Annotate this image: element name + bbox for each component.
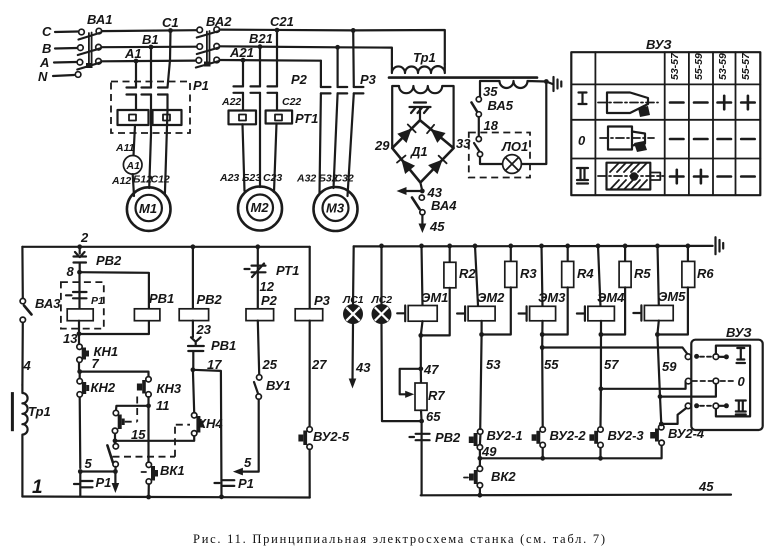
wire A23 heater to motor M2	[243, 124, 245, 191]
switch BA1 pole B	[78, 45, 84, 51]
svg-text:КН2: КН2	[91, 380, 116, 395]
node B21 junction at M3 drop	[335, 45, 340, 50]
svg-text:С32: С32	[335, 173, 354, 185]
wire B1 run BA1 to BA2	[101, 46, 196, 49]
arrow reference 43 down	[349, 379, 357, 389]
contact PT1 thermal	[245, 264, 266, 278]
wire bridge bottom to node 43	[420, 183, 422, 192]
svg-text:ВА2: ВА2	[206, 14, 232, 29]
svg-text:ЭМ1: ЭМ1	[421, 290, 448, 305]
node junction EM3 top	[539, 244, 544, 249]
node 5 junction left	[78, 469, 83, 474]
button KH2	[79, 372, 82, 468]
wire EM2 to R3 junction and node 53	[480, 321, 481, 429]
svg-text:С12: С12	[151, 174, 170, 186]
diode upper-right	[431, 129, 446, 143]
svg-text:Тр1: Тр1	[28, 404, 51, 419]
heater element C phase in P1 box	[153, 110, 182, 125]
heater C22 element	[266, 111, 293, 124]
svg-text:РВ2: РВ2	[435, 430, 461, 445]
wire node 5 horizontal	[80, 470, 115, 472]
transformer Tp1 secondary 2 winding	[480, 81, 553, 96]
contact P1 phase C ticks	[158, 88, 168, 95]
heater A22 element	[229, 111, 257, 125]
wire C1 run BA1 to BA2	[102, 29, 197, 32]
wire bus to lamp LS1	[352, 246, 355, 304]
svg-text:Р1: Р1	[193, 78, 209, 93]
relay coil PB2 drop	[192, 247, 194, 309]
contact P3 phase C ticks	[354, 87, 364, 93]
table row II position symbol	[577, 168, 588, 184]
svg-text:Тр1: Тр1	[413, 50, 436, 65]
contact P1 phase B ticks	[142, 88, 152, 95]
node junction EM4 top	[596, 244, 601, 249]
wire A21 run BA2 to M3 drop corner	[220, 59, 321, 62]
svg-text:ВА5: ВА5	[488, 98, 514, 113]
svg-text:45: 45	[429, 219, 445, 234]
svg-text:53: 53	[486, 357, 501, 372]
contact P1 self-holding	[66, 272, 87, 309]
transformer Tp1 control winding	[22, 385, 27, 497]
svg-text:35: 35	[483, 84, 498, 99]
svg-text:4: 4	[23, 358, 32, 373]
svg-text:Р3: Р3	[360, 72, 377, 87]
wire switch 15 lower to node 5	[114, 467, 116, 472]
wire 57 to VU3 selector row 0	[601, 381, 686, 389]
svg-text:23: 23	[196, 322, 212, 337]
node junction R2 top	[447, 244, 452, 249]
wire EM1 to R2 junction	[421, 321, 423, 335]
svg-text:ВУЗ: ВУЗ	[646, 37, 672, 52]
lamp LO1	[503, 155, 522, 174]
node junction EM1 top	[419, 244, 424, 249]
wire EM4 down to VU2-3	[599, 321, 602, 427]
svg-text:R6: R6	[697, 266, 714, 281]
svg-text:55-59: 55-59	[693, 53, 705, 80]
table row I sketch quill	[607, 93, 648, 114]
svg-text:Р1: Р1	[238, 476, 254, 491]
button VU2-3	[599, 448, 601, 459]
selector VU3 row II contacts	[685, 403, 691, 409]
wire C21 run BA2 to transformer corner	[220, 30, 445, 64]
svg-text:8: 8	[67, 264, 75, 279]
wire bus to EM1 coil	[422, 246, 423, 306]
wire BK1 to bus	[148, 484, 150, 497]
svg-text:А11: А11	[115, 142, 135, 154]
contact P1 bottom right	[215, 480, 235, 486]
node junction R4 top	[565, 244, 570, 249]
table row 0 values	[670, 138, 755, 141]
node junction 57	[599, 386, 604, 391]
wire switch 15 to junction	[114, 434, 116, 444]
diode upper-left	[397, 128, 411, 143]
wire A1 run BA1 to BA2	[101, 59, 195, 62]
svg-text:РТ1: РТ1	[295, 111, 318, 126]
electromagnet EM4	[588, 306, 615, 321]
button VU2-1	[479, 434, 482, 458]
contact P3 phase A ticks	[321, 87, 331, 93]
wire lamp LO1 to secondary return	[521, 82, 546, 165]
node junction PB2 top	[191, 244, 196, 249]
svg-text:РВ1: РВ1	[211, 338, 236, 353]
node junction EM5-R6	[655, 332, 660, 337]
table row II sketch hatched block	[598, 163, 664, 190]
wire A11 heater to ammeter	[134, 125, 136, 156]
node junction BK1 on bus	[146, 495, 151, 500]
lamp LS2	[372, 304, 392, 324]
node junction 55	[540, 345, 545, 350]
svg-text:1: 1	[32, 477, 43, 498]
svg-text:А23: А23	[219, 172, 239, 184]
wire EM5 down to VU2-4	[657, 321, 661, 425]
wire A1 drop to contact	[135, 61, 137, 110]
bus bottom left	[22, 497, 309, 498]
switch BA5	[476, 97, 481, 102]
switch 15 lower	[113, 444, 118, 449]
svg-text:57: 57	[604, 357, 619, 372]
svg-text:2: 2	[80, 230, 89, 245]
node A21 junction at M2 tap	[241, 58, 246, 63]
node A1 junction	[134, 59, 139, 64]
svg-text:65: 65	[426, 409, 441, 424]
svg-text:ВУ2-4: ВУ2-4	[668, 426, 705, 441]
node 2 junction	[77, 244, 82, 249]
node 8 junction	[77, 270, 82, 275]
relay coil P2	[246, 309, 274, 321]
svg-text:C: C	[42, 24, 52, 39]
svg-text:ЛО1: ЛО1	[501, 139, 528, 154]
wire EM3 down through junctions to VU2-2	[541, 321, 544, 427]
svg-text:С23: С23	[263, 172, 282, 184]
svg-text:C21: C21	[270, 14, 294, 29]
wire A22 drop to P2 contact	[242, 60, 244, 110]
switch BA2 pole A	[196, 58, 202, 64]
svg-text:R7: R7	[428, 388, 445, 403]
node junction 49 VU2-2	[540, 456, 545, 461]
node 11 junction	[146, 403, 151, 408]
svg-text:49: 49	[481, 444, 497, 459]
transformer Tp1 primary winding	[392, 64, 445, 73]
svg-text:РВ2: РВ2	[197, 292, 223, 307]
svg-text:А22: А22	[221, 96, 241, 108]
node junction EM3-R4	[540, 332, 545, 337]
wire junction to KH4 bottom	[115, 436, 194, 441]
svg-text:ЭМ2: ЭМ2	[477, 290, 505, 305]
node 13 junction	[77, 331, 82, 336]
wire A32 drop to P3 contact	[320, 61, 321, 193]
relay coil PB2	[179, 309, 208, 321]
button KH3	[146, 377, 151, 382]
transformer Tp1 core	[389, 76, 537, 79]
node junction row II on 59 wire	[659, 422, 664, 427]
node 5 junction right	[113, 469, 118, 474]
svg-text:ВК1: ВК1	[160, 463, 185, 478]
switch BA2 pole B	[197, 44, 203, 50]
svg-text:А1: А1	[124, 46, 142, 61]
svg-text:Р2: Р2	[261, 293, 278, 308]
svg-text:РТ1: РТ1	[276, 263, 299, 278]
node junction PT1 top	[255, 244, 260, 249]
electromagnet EM2	[468, 306, 495, 321]
wire junction to node 47	[420, 335, 422, 368]
svg-text:53-57: 53-57	[669, 52, 681, 80]
selector VU3 position II label	[736, 401, 746, 415]
switch BA1 N terminal	[75, 72, 81, 78]
node B1 junction	[149, 45, 154, 50]
node 17 junction	[191, 367, 196, 372]
wire switch to lamp LO1	[480, 157, 503, 164]
svg-text:55-57: 55-57	[740, 52, 752, 80]
lamp circuit switch	[476, 136, 481, 141]
arrow reference 45 down	[421, 215, 423, 226]
svg-text:29: 29	[374, 138, 390, 153]
svg-text:25: 25	[262, 357, 278, 372]
node junction 49 VU2-3	[598, 456, 603, 461]
lamp enclosure dashed box	[469, 133, 530, 178]
svg-text:КН3: КН3	[157, 381, 182, 396]
svg-text:М1: М1	[139, 201, 157, 216]
relay coil P3	[295, 309, 323, 321]
table VU3 row lines	[571, 84, 760, 158]
wire 18 to lamp switch	[478, 117, 480, 136]
svg-text:ВК2: ВК2	[491, 469, 516, 484]
svg-text:РВ2: РВ2	[96, 253, 122, 268]
switch BA1 mechanical link	[89, 33, 92, 67]
wire node 7 to KH3	[80, 372, 149, 377]
rheostat R7 bypass and wiper arrow	[400, 369, 421, 395]
contact PB2 time closing top	[74, 247, 87, 272]
svg-text:Р1: Р1	[91, 295, 104, 307]
svg-text:ВУ2-3: ВУ2-3	[608, 428, 645, 443]
node C1 junction	[168, 28, 173, 33]
wire node 17 right branch to P1 contact	[193, 370, 222, 497]
svg-text:59: 59	[662, 359, 677, 374]
wire node 17 to KH4	[193, 370, 194, 413]
wire bus to EM4 coil	[598, 246, 601, 306]
wire VU1 down and arrow 5	[240, 399, 259, 471]
node junction below switch 15	[113, 438, 118, 443]
selector VU3 row 0 return to 59	[660, 384, 716, 397]
svg-text:5: 5	[85, 456, 93, 471]
rectifier bridge D1 outline	[392, 120, 453, 182]
svg-text:Р3: Р3	[314, 293, 331, 308]
table VU3 frame	[571, 52, 760, 195]
contact PB2 bottom	[410, 421, 430, 495]
svg-text:ВУ2-2: ВУ2-2	[550, 428, 587, 443]
table row I values	[670, 96, 755, 110]
node junction 49 VU2-1	[478, 456, 483, 461]
button VU2-2	[542, 448, 544, 459]
arrow reference 43 left	[404, 190, 422, 192]
node junction EM2-R3	[479, 332, 484, 337]
selector VU3 position I label	[737, 348, 746, 363]
switch BA2 pole C	[197, 27, 203, 33]
node junction EM4-R5	[599, 332, 604, 337]
svg-text:R2: R2	[459, 266, 476, 281]
motor M3	[314, 187, 358, 231]
control bus top right	[354, 245, 713, 248]
bus bottom right	[421, 494, 731, 497]
wire 55 to VU3 selector row I	[542, 348, 688, 356]
diode lower-left	[401, 159, 415, 174]
svg-text:C1: C1	[162, 15, 179, 30]
svg-text:53-59: 53-59	[717, 53, 729, 80]
svg-text:55: 55	[544, 357, 559, 372]
control bus top left	[22, 246, 309, 248]
node junction at secondary 2 right	[544, 79, 549, 84]
contactor P1 dashed enclosure	[111, 82, 190, 134]
limit switch BK2	[479, 458, 481, 495]
diode lower-right	[428, 160, 443, 175]
wire coil P1 to node 13	[78, 321, 80, 334]
svg-text:18: 18	[484, 118, 499, 133]
svg-text:КН4: КН4	[198, 416, 223, 431]
svg-text:11: 11	[156, 398, 170, 413]
contact P1 bottom left	[74, 472, 93, 497]
svg-text:А32: А32	[296, 173, 316, 185]
table VU3 column lines	[595, 52, 735, 195]
node junction P1 right on bus	[219, 494, 224, 499]
node junction EM2 top	[473, 244, 478, 249]
node junction 59 return	[658, 394, 663, 399]
lamp LS1	[343, 304, 363, 324]
contact P3 phase B ticks	[338, 87, 348, 93]
selector VU3 row 0 contacts	[686, 378, 692, 384]
svg-text:Р1: Р1	[96, 475, 112, 490]
wire lamp LS1 to arrow 43	[351, 324, 354, 380]
svg-text:М2: М2	[251, 200, 270, 215]
table row II values	[670, 170, 755, 184]
contact P2 phase B ticks	[251, 86, 261, 92]
mechanical link KH3 to switch 15 upper	[125, 397, 138, 422]
node C21 junction at M3 drop	[351, 28, 356, 33]
table row 0 sketch quill retracted	[608, 127, 632, 150]
wire bus to EM5 coil	[658, 246, 659, 306]
resistor R6	[687, 246, 689, 262]
switch BA3	[20, 298, 25, 303]
table row I position symbol	[579, 93, 587, 105]
wire VU2-5 to bus	[309, 450, 311, 498]
node junction LS2	[379, 244, 384, 249]
wire B to BA1	[55, 47, 77, 50]
svg-text:R4: R4	[577, 266, 594, 281]
node junction EM5 top	[655, 244, 660, 249]
node junction BK2 on bus	[478, 493, 483, 498]
switch BA2 mechanical link	[207, 31, 210, 65]
svg-text:B: B	[42, 41, 51, 56]
chassis ground above bridge	[410, 103, 431, 121]
svg-text:Б23: Б23	[242, 172, 261, 184]
node B21 junction at M2 tap	[258, 44, 263, 49]
wire node 11 to switch 15 upper	[116, 406, 149, 411]
heater element A phase in P1 box	[118, 110, 149, 125]
svg-text:Рис. 11. Принципиальная электр: Рис. 11. Принципиальная электросхема ста…	[193, 532, 605, 546]
wire C to BA1	[55, 30, 78, 33]
svg-text:ВА3: ВА3	[35, 296, 61, 311]
wire A12 ammeter to motor M1	[133, 174, 134, 196]
node junction R5 top	[623, 244, 628, 249]
ammeter A1	[123, 156, 142, 175]
svg-text:А21: А21	[229, 45, 254, 60]
motor M2	[238, 187, 282, 231]
svg-text:С22: С22	[282, 96, 301, 108]
svg-text:ЭМ5: ЭМ5	[658, 289, 686, 304]
selector VU3 row I contacts	[685, 354, 691, 360]
wire B phase to motor M1	[149, 134, 151, 188]
wire bus to lamp LS2	[380, 246, 382, 305]
resistor R2	[449, 246, 451, 262]
node C21 junction at M2 tap	[275, 28, 280, 33]
wire lamp LS2 to node 65	[382, 324, 422, 421]
svg-text:47: 47	[423, 362, 439, 377]
svg-text:Р2: Р2	[291, 72, 308, 87]
wire B21 run BA2 to transformer left corner	[220, 46, 392, 64]
wire coil P2 to VU1	[258, 321, 259, 375]
relay coil PB1	[134, 309, 160, 321]
svg-text:ВУ1: ВУ1	[266, 378, 291, 393]
wire C1 drop to contact	[168, 31, 171, 111]
selector VU3 link wire rows I and II	[716, 346, 750, 417]
node 43 junction	[420, 189, 425, 194]
button KH4	[192, 413, 197, 418]
svg-text:45: 45	[698, 479, 714, 494]
resistor R3	[510, 246, 512, 262]
svg-text:ВУ2-5: ВУ2-5	[313, 429, 350, 444]
contact P2 phase A ticks	[234, 86, 244, 92]
wire B32 drop to P3 contact	[334, 47, 338, 188]
node 7 junction	[77, 369, 82, 374]
button VU2-4	[659, 425, 664, 430]
svg-text:А12: А12	[111, 175, 131, 187]
earth ground at bus right end	[714, 237, 716, 254]
switch BA1 pole C	[79, 29, 85, 35]
svg-text:7: 7	[92, 356, 100, 371]
node 65 junction	[419, 419, 424, 424]
switch BA1 pole A	[77, 59, 83, 65]
wire PB1 coil bottom to node 13	[79, 321, 149, 334]
mechanical link switch 15 lower to KH4	[113, 425, 191, 457]
svg-text:A: A	[39, 55, 49, 70]
contact P2 phase C ticks	[268, 86, 278, 92]
transformer Tp1 core bar	[11, 392, 14, 431]
svg-text:5: 5	[244, 455, 252, 470]
resistor R4	[567, 246, 569, 262]
svg-text:ЭМ4: ЭМ4	[597, 290, 625, 305]
wire C32 drop to P3 contact	[348, 30, 354, 196]
node 47 junction	[418, 366, 423, 371]
wire bus to EM3 coil	[542, 246, 543, 306]
wire A to BA1	[54, 61, 76, 64]
svg-text:А1: А1	[126, 160, 141, 172]
switch BA3 drop from bus	[21, 247, 24, 299]
node junction R3 top	[508, 244, 513, 249]
wire KH3 to node 11 and down to BK1	[147, 397, 149, 462]
svg-text:43: 43	[355, 360, 371, 375]
wire C phase to motor M1	[165, 110, 168, 194]
earth ground at Tp1 secondary	[552, 77, 554, 91]
switch VU1	[257, 375, 262, 380]
transformer Tp1 secondary 1 winding	[392, 86, 453, 148]
svg-text:ВА1: ВА1	[87, 12, 113, 27]
wire C22 drop to P2 contact	[276, 30, 278, 110]
rheostat R7	[420, 369, 422, 383]
svg-text:12: 12	[260, 279, 275, 294]
electromagnet EM1	[408, 306, 437, 322]
svg-text:N: N	[38, 69, 48, 84]
resistor R5	[624, 246, 626, 262]
button VU2-5	[307, 427, 312, 432]
svg-text:R5: R5	[634, 266, 651, 281]
